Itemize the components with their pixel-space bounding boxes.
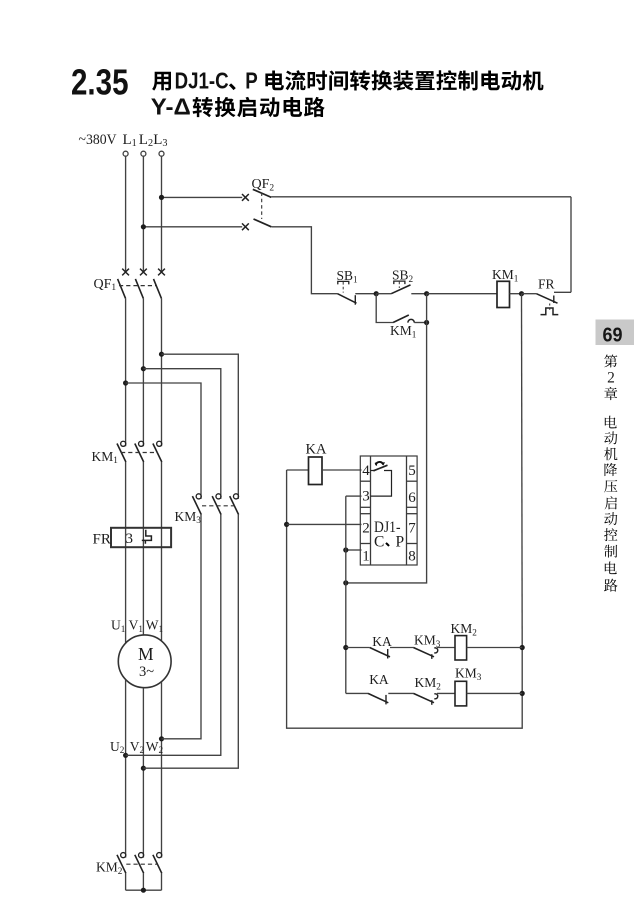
svg-text:~380V: ~380V [79, 132, 117, 148]
svg-text:U2: U2 [110, 739, 125, 755]
svg-text:KM1: KM1 [390, 323, 417, 339]
svg-text:KA: KA [372, 634, 392, 649]
svg-text:KA: KA [306, 442, 327, 458]
svg-text:U1: U1 [111, 618, 126, 634]
svg-text:3~: 3~ [139, 664, 154, 680]
svg-text:3: 3 [362, 488, 370, 504]
svg-text:69: 69 [603, 325, 623, 347]
svg-text:FR: FR [538, 276, 555, 291]
svg-text:M: M [138, 644, 154, 664]
svg-text:L1: L1 [123, 132, 137, 149]
svg-text:1: 1 [362, 548, 370, 564]
svg-text:P: P [396, 533, 405, 550]
svg-text:KM2: KM2 [451, 621, 478, 637]
svg-text:QF1: QF1 [94, 277, 117, 293]
svg-text:5: 5 [408, 463, 416, 479]
svg-text:6: 6 [408, 490, 416, 506]
svg-text:KM2: KM2 [96, 860, 123, 876]
svg-text:L2: L2 [139, 132, 153, 149]
svg-text:KM2: KM2 [415, 675, 442, 691]
svg-text:QF2: QF2 [252, 177, 275, 193]
svg-text:KM1: KM1 [92, 449, 119, 465]
svg-text:4: 4 [362, 463, 370, 479]
svg-text:C: C [374, 533, 384, 550]
svg-text:V2: V2 [130, 739, 145, 755]
svg-text:KM3: KM3 [414, 633, 441, 649]
svg-text:KM3: KM3 [455, 666, 482, 682]
svg-text:3: 3 [126, 531, 134, 547]
svg-text:2: 2 [362, 520, 370, 536]
svg-text:L3: L3 [153, 132, 167, 149]
svg-text:2: 2 [607, 370, 615, 387]
svg-text:P: P [245, 68, 258, 94]
svg-text:V1: V1 [129, 618, 144, 634]
svg-text:2.35: 2.35 [71, 62, 129, 103]
svg-text:FR: FR [93, 532, 111, 548]
svg-text:Y-Δ: Y-Δ [151, 93, 191, 119]
svg-text:KM3: KM3 [175, 509, 202, 525]
svg-text:8: 8 [408, 549, 416, 565]
svg-text:7: 7 [408, 520, 416, 536]
svg-text:KM1: KM1 [492, 267, 519, 283]
svg-text:DJ1-C: DJ1-C [175, 68, 229, 94]
svg-text:KA: KA [369, 672, 389, 687]
